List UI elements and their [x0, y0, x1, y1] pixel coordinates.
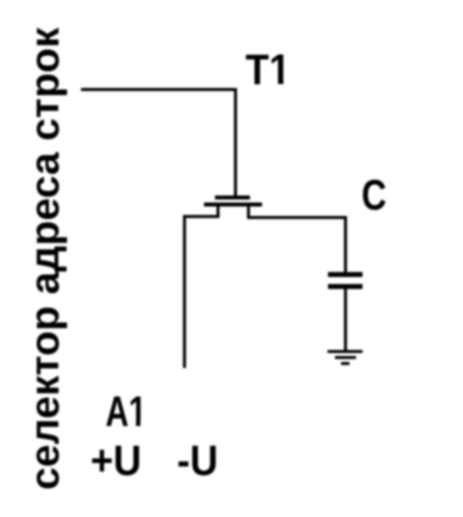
svg-text:T1: T1	[246, 46, 291, 94]
svg-text:селектор адреса строк: селектор адреса строк	[22, 27, 68, 490]
wire: T1 drain leg to capacitor C	[249, 206, 346, 272]
ground symbol	[328, 352, 363, 364]
label T1	[246, 46, 291, 94]
label +U	[91, 437, 142, 485]
label -U	[177, 437, 218, 485]
label A1	[106, 388, 148, 436]
transistor T1 (MOSFET channel bar)	[204, 203, 262, 207]
wire: capacitor C to ground	[344, 289, 347, 350]
label C	[362, 172, 387, 220]
svg-text:+U: +U	[91, 437, 142, 485]
wire: row-select line from label to gate of T1	[81, 90, 236, 197]
svg-text:A1: A1	[106, 388, 147, 436]
wire: T1 source leg down to -U supply	[185, 206, 219, 368]
svg-text:C: C	[362, 172, 387, 220]
capacitor C (top plate)	[328, 272, 363, 277]
transistor T1 (MOSFET gate bar)	[215, 196, 250, 200]
net label: селектор адреса строк (row address selector), rotated	[22, 27, 68, 490]
capacitor C (bottom plate)	[328, 284, 363, 289]
svg-text:-U: -U	[177, 437, 218, 485]
